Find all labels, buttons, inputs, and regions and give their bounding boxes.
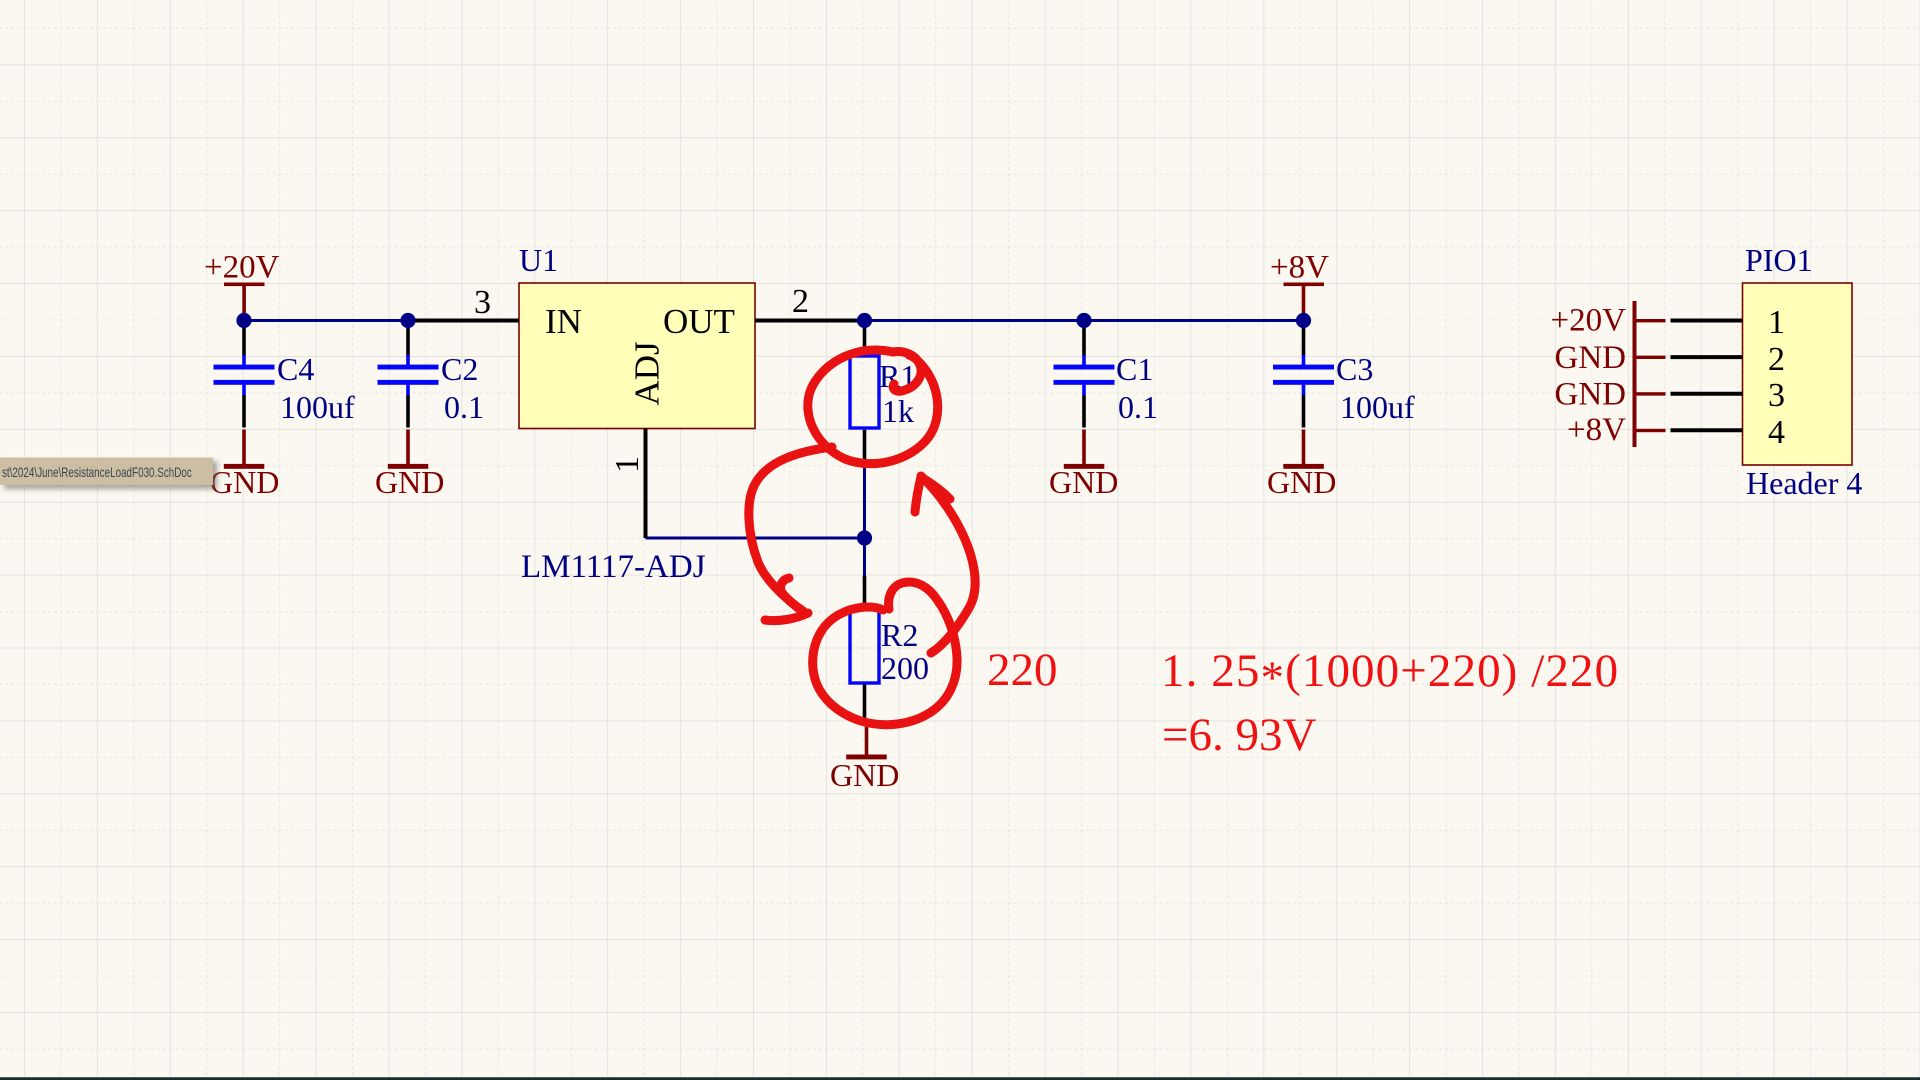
svg-text:100uf: 100uf [1340, 389, 1415, 425]
svg-text:PIO1: PIO1 [1745, 242, 1813, 278]
svg-text:GND: GND [1049, 464, 1118, 500]
svg-text:GND: GND [830, 757, 899, 793]
capacitor C3 [1273, 320, 1415, 428]
svg-text:2: 2 [792, 283, 809, 320]
regulator U1 LM1117-ADJ box [519, 242, 755, 585]
svg-text:3: 3 [474, 284, 491, 321]
svg-text:+8V: +8V [1270, 250, 1329, 286]
svg-text:3: 3 [1768, 377, 1785, 414]
net label +8V at PIO1 pin 4 [1567, 412, 1626, 448]
PIO1 pin 1 [1671, 304, 1786, 341]
annotation red formula line 1 [1161, 645, 1619, 704]
svg-text:+20V: +20V [1551, 303, 1627, 339]
annotation red circle around R2 [813, 582, 957, 725]
svg-text:1k: 1k [882, 393, 914, 429]
svg-text:R2: R2 [881, 617, 918, 653]
PIO1 pin 3 [1671, 377, 1786, 414]
junction node J1 [236, 313, 251, 328]
resistor R1 [850, 320, 916, 465]
annotation red S-curve arrow to R2 [749, 447, 832, 621]
svg-text:C1: C1 [1116, 351, 1153, 387]
svg-text:IN: IN [545, 302, 582, 341]
net label +20V at PIO1 pin 1 [1551, 303, 1627, 339]
svg-text:1: 1 [1768, 304, 1785, 341]
ground GND at C1 [1049, 430, 1118, 501]
capacitor C1 [1054, 320, 1159, 428]
svg-text:1: 1 [609, 456, 646, 473]
svg-text:GND: GND [1555, 377, 1627, 413]
junction node J2 [400, 313, 415, 328]
svg-text:0.1: 0.1 [1118, 389, 1158, 425]
capacitor C2 [378, 320, 485, 428]
svg-text:Header 4: Header 4 [1746, 465, 1862, 501]
junction node ADJ [857, 530, 872, 545]
junction node J4 [1076, 313, 1091, 328]
connector PIO1 Header 4 box [1743, 242, 1863, 501]
svg-text:100uf: 100uf [280, 389, 355, 425]
power bar group on PIO1 pins [1633, 301, 1666, 447]
wire ADJ net horizontal [646, 537, 865, 540]
svg-text:C3: C3 [1336, 351, 1373, 387]
svg-text:+20V: +20V [204, 250, 280, 286]
annotation red circle around R1 [808, 350, 938, 464]
net label GND at PIO1 pin 3 [1555, 377, 1627, 413]
ground GND at C3 [1267, 430, 1336, 501]
svg-text:C4: C4 [277, 351, 314, 387]
junction node J5 [1296, 313, 1311, 328]
svg-text:GND: GND [210, 464, 279, 500]
annotation red text 220 [987, 644, 1058, 696]
power port +8V [1270, 250, 1329, 321]
svg-text:0.1: 0.1 [444, 389, 484, 425]
ground GND at R2 [830, 722, 899, 793]
svg-text:GND: GND [1267, 464, 1336, 500]
wire R1 bottom to ADJ node [863, 465, 866, 538]
tooltip ResistanceLoadF030.SchDoc [0, 457, 213, 485]
wire net +20V to U1.IN [244, 319, 408, 322]
svg-text:GND: GND [375, 464, 444, 500]
svg-text:4: 4 [1768, 414, 1785, 451]
svg-text:2: 2 [1768, 341, 1785, 378]
PIO1 pin 2 [1671, 341, 1786, 378]
PIO1 pin 4 [1671, 414, 1786, 451]
junction node J3 [857, 313, 872, 328]
svg-text:LM1117-ADJ: LM1117-ADJ [521, 549, 706, 585]
power port +20V [204, 250, 280, 321]
svg-text:GND: GND [1555, 340, 1627, 376]
svg-text:C2: C2 [441, 351, 478, 387]
ground GND at C4 [210, 430, 279, 501]
annotation red arrow up to R1 [915, 476, 975, 653]
svg-text:U1: U1 [519, 242, 558, 278]
svg-text:220: 220 [987, 644, 1058, 696]
resistor R2 [850, 576, 929, 720]
U1 pin 2 [755, 283, 865, 321]
U1 pin 3 [408, 284, 519, 321]
svg-text:ADJ: ADJ [628, 341, 667, 405]
ground GND at C2 [375, 430, 444, 501]
svg-text:200: 200 [881, 650, 929, 686]
wire ADJ node to R2 top [863, 538, 866, 576]
capacitor C4 [214, 320, 356, 428]
status bar bottom edge [0, 1077, 1920, 1080]
annotation red formula line 2 [1162, 709, 1317, 761]
svg-text:=6. 93V: =6. 93V [1162, 709, 1317, 761]
wire U1.OUT net to +8V [865, 319, 1304, 322]
net label GND at PIO1 pin 2 [1555, 340, 1627, 376]
svg-text:OUT: OUT [663, 302, 735, 341]
svg-text:+8V: +8V [1567, 412, 1626, 448]
svg-text:1. 25*(1000+220) /220: 1. 25*(1000+220) /220 [1161, 645, 1619, 704]
U1 pin 1 ADJ [609, 429, 646, 539]
